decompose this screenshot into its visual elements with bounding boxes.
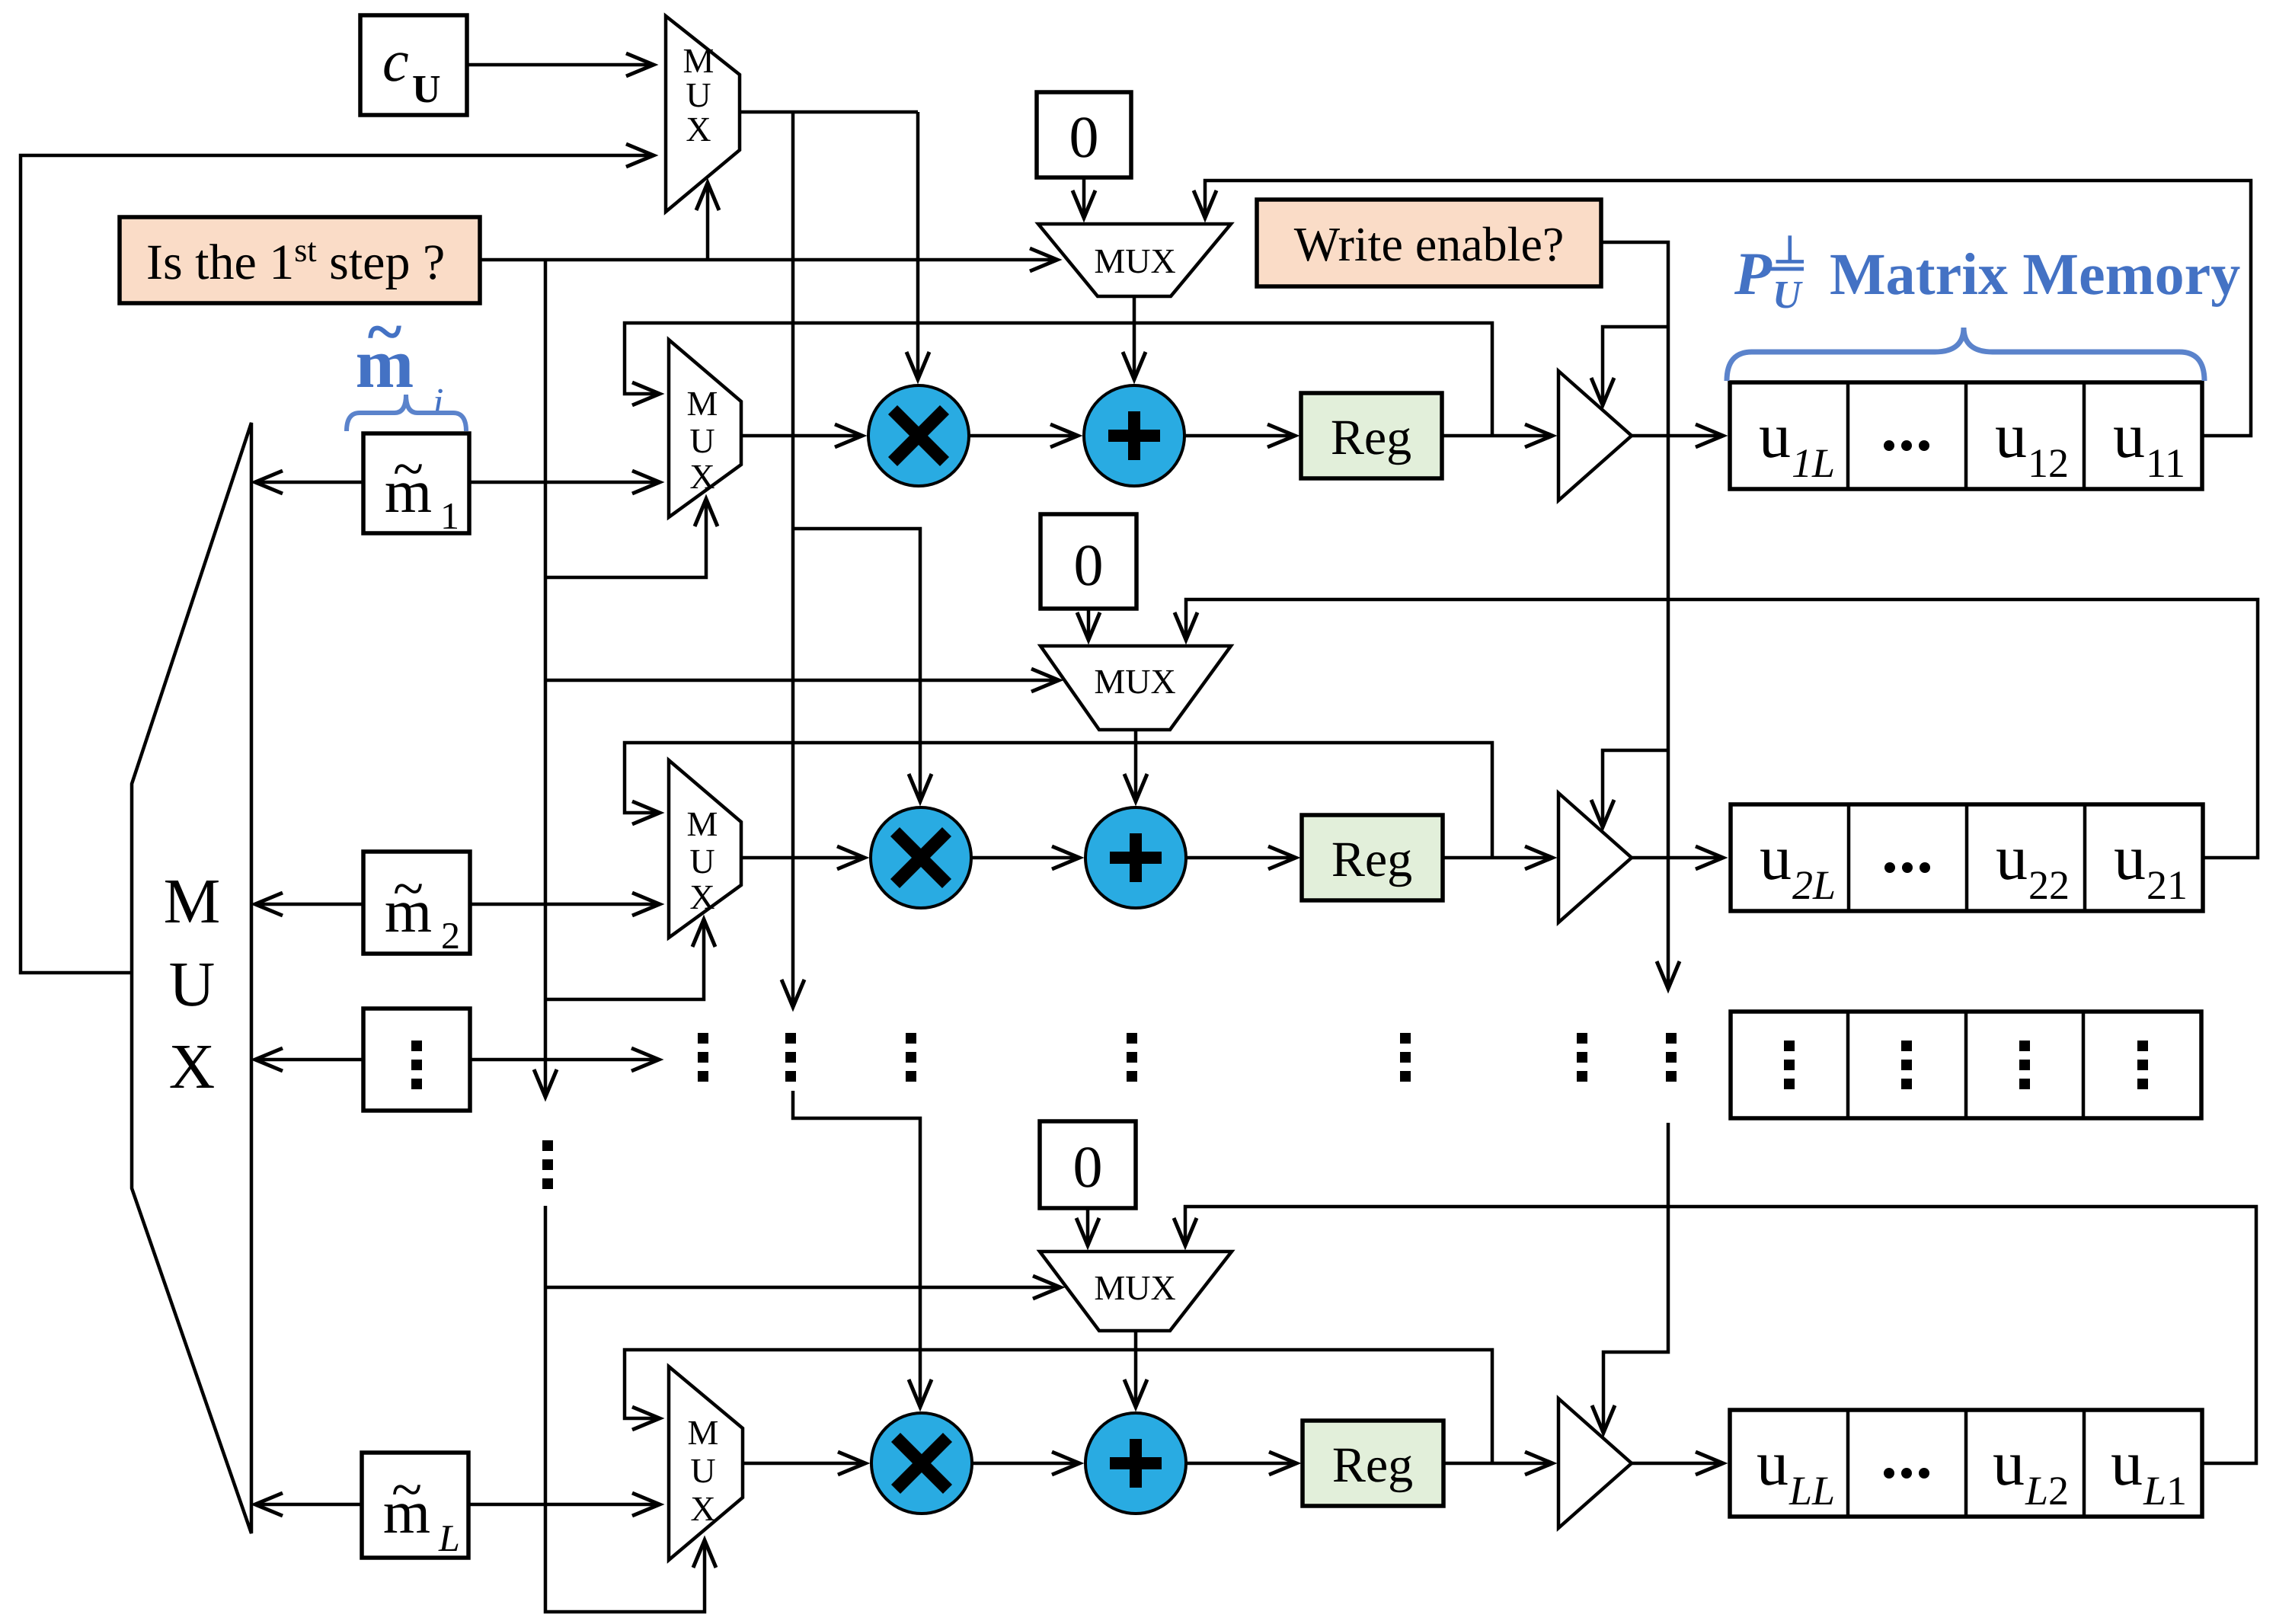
wire: mux4a output to multiplier4 [743,1462,865,1466]
svg-text:~: ~ [393,858,424,920]
svg-text:L1: L1 [2143,1468,2187,1514]
svg-text:0: 0 [1074,532,1104,598]
block mL [362,1453,468,1559]
svg-text:u: u [1993,1428,2025,1499]
svg-text:2L: 2L [1792,862,1836,908]
svg-text:u: u [2111,1428,2143,1499]
block zero2 [1041,514,1136,609]
multiplier M2 [871,807,971,908]
svg-text:X: X [169,1031,216,1102]
wire: zero1 into mux1b [1082,177,1086,218]
wire: step signal to row1 MUX left input [480,258,1057,262]
svg-text:21: 21 [2147,862,2188,908]
svg-text:X: X [689,878,714,916]
svg-text:u: u [1757,1428,1789,1499]
wire: adder1 to Reg1 [1184,434,1295,438]
wire: m1 to row1 MUX lower input [469,481,660,484]
wire: mux1b output into adder1 [1133,296,1136,379]
svg-text:U: U [689,842,714,881]
svg-text:U: U [412,68,441,111]
mux 1b (row1 accumulator MUX) [1038,224,1231,296]
adder A1 [1084,385,1184,486]
svg-text:Reg: Reg [1331,410,1411,465]
svg-text:U: U [1773,273,1803,317]
wire: m1 to left MUX [255,481,363,484]
svg-text:M: M [687,804,718,843]
wire: jog x1041 to x1208 into row2 multiplier [793,529,920,801]
register Reg2 [1302,815,1443,900]
wire: buffer1 to memory row1 [1632,434,1723,438]
wire: row2 MUX left input [545,679,1059,683]
svg-text:U: U [169,949,216,1020]
node: continuation dots on x716 [542,1140,553,1189]
svg-text:L: L [438,1517,460,1559]
svg-text:LL: LL [1789,1468,1835,1514]
svg-text:1L: 1L [1792,440,1835,486]
multiplier M1 [868,385,969,486]
svg-text:X: X [686,110,711,149]
mux 2a (row2 input MUX) [669,760,741,938]
svg-text:MUX: MUX [1094,662,1175,701]
wire: mux2b output into adder2 [1134,730,1138,801]
svg-text:M: M [164,866,221,937]
mux U-left (large left-side MUX) [132,423,251,1533]
memory row2 (u21..u2L) [1731,804,2203,911]
svg-text:1: 1 [440,494,459,537]
wire: column x1205 into row1 multiplier [916,112,920,379]
svg-text:Reg: Reg [1331,832,1412,887]
svg-text:M: M [687,384,718,423]
wire: Reg1 to buffer1 [1442,434,1552,438]
block step (Is the 1st step ?) [120,217,480,303]
svg-text:L2: L2 [2025,1468,2069,1514]
mux 4a (row L input MUX) [669,1367,743,1560]
wire: row1 select branch [545,499,706,577]
block m-dots [363,1009,470,1111]
svg-text:⊥: ⊥ [1773,229,1807,271]
wire: mux4b output into adder4 [1134,1331,1138,1407]
wire: adder4 to Reg4 [1186,1462,1296,1466]
block m1 [363,433,469,537]
brace for matrix memory [1727,328,2204,381]
svg-text:Matrix Memory: Matrix Memory [1830,241,2240,307]
wire: row1 feedback loop Reg to MUX upper input [625,323,1492,436]
wire: multiplier2 to adder2 [971,856,1079,860]
svg-text:2: 2 [441,914,460,957]
memory row1 (u11..u1L) [1730,382,2202,489]
svg-text:U: U [689,421,714,460]
wire: write-enable branch into buffer2 [1603,750,1668,827]
label P-perp-U Matrix Memory (blue) [1734,229,2240,317]
wire: cU to top MUX upper input [467,63,654,67]
wire: top MUX output to column x1205 [740,110,918,114]
wire: Reg2 to buffer2 [1443,856,1552,860]
wire: m-dots to left MUX [255,1058,363,1062]
wire: write-enable branch into buffer1 [1603,327,1668,405]
wire: x1041 lower stub jog to x1208 into row4 multiplier [793,1091,920,1407]
svg-text:11: 11 [2146,440,2185,486]
wire: m2 to row2 MUX lower input [470,903,660,906]
svg-text:u: u [2113,401,2145,472]
multiplier M4 [871,1413,972,1514]
memory rowL (uL1..uLL) [1730,1410,2202,1517]
wire: write-enable distribution vertical x2190 [1601,242,1668,989]
wire: buffer2 to memory row2 [1632,856,1723,860]
svg-text:MUX: MUX [1094,241,1175,280]
wire: zero2 into mux2b [1087,609,1091,640]
svg-text:~: ~ [392,1459,422,1521]
svg-text:X: X [690,1489,715,1528]
wire: multiplier1 to adder1 [969,434,1078,438]
svg-text:u: u [1996,823,2028,894]
svg-text:U: U [686,75,711,114]
label m-tilde-i (blue) [356,295,444,424]
svg-text:u: u [2114,823,2146,894]
memory row3 (dots) [1731,1012,2201,1118]
svg-text:0: 0 [1073,1133,1103,1200]
mux 4b (rowL accumulator MUX) [1040,1252,1232,1331]
block zero4 [1040,1121,1136,1208]
wire: m2 to left MUX [255,903,363,906]
adder A2 [1085,807,1186,908]
svg-text:i: i [433,381,443,424]
mux 2b (row2 accumulator MUX) [1041,646,1231,730]
mux U-top (input select MUX) [666,16,740,212]
svg-text:M: M [683,41,714,80]
mux 1a (row1 input MUX) [669,340,741,517]
wire: row2 select branch [545,919,704,999]
wire: mL to row4 MUX lower input [468,1503,660,1507]
svg-text:u: u [1759,401,1791,472]
wire: write-enable branch into buffer4 [1603,1123,1668,1433]
wire: memory row2 feedback to mux2b right input [1186,599,2258,858]
block m2 [363,852,470,957]
svg-text:P: P [1734,241,1773,308]
wire: column x1041 from top MUX output down [791,112,795,1007]
svg-text:22: 22 [2028,862,2070,908]
svg-text:u: u [1995,401,2027,472]
svg-text:~: ~ [368,295,402,368]
node: dots row markers [698,1033,1677,1082]
svg-text:c: c [382,27,409,94]
wire: adder2 to Reg2 [1186,856,1296,860]
svg-text:U: U [690,1451,715,1490]
register Reg4 [1303,1421,1443,1506]
wire: mL to left MUX [255,1503,362,1507]
wire: step select up into top MUX [706,183,710,260]
svg-text:X: X [689,457,714,496]
adder A4 [1085,1413,1186,1514]
svg-text:12: 12 [2028,440,2069,486]
wire: multiplier4 to adder4 [972,1462,1079,1466]
svg-text:0: 0 [1069,104,1099,170]
buffer T2 (tri-state) [1558,793,1632,922]
block zero1 [1037,92,1131,177]
wire: row4 MUX left input [545,1286,1060,1290]
svg-text:Write enable?: Write enable? [1294,217,1565,271]
svg-text:Reg: Reg [1332,1437,1413,1493]
wire: left MUX output loop to top MUX lower input [21,155,654,973]
wire: m-dots row stub right [470,1058,659,1062]
buffer T4 (tri-state) [1558,1399,1632,1528]
svg-text:u: u [1760,823,1792,894]
brace for m-tilde-i [347,395,466,431]
svg-text:~: ~ [393,438,424,500]
wire: memory rowL feedback to mux4b right input [1185,1207,2256,1463]
svg-text:M: M [688,1413,719,1452]
wire: buffer4 to memory row4 [1632,1462,1723,1466]
block write-enable [1257,200,1601,286]
wire: x716 lower segment to row4 select [545,1206,705,1612]
register Reg1 [1301,393,1442,478]
buffer T1 (tri-state) [1558,371,1632,500]
svg-text:MUX: MUX [1094,1268,1175,1307]
wire: zero4 into mux4b [1086,1208,1090,1245]
wire: mux1a output to multiplier1 [741,434,862,438]
wire: step select vertical distribution x716 upper segment [544,260,548,1097]
wire: memory row1 feedback to mux1b right input [1205,181,2251,436]
block cU [360,15,467,115]
wire: row2 feedback loop Reg to MUX upper input [625,743,1492,858]
wire: mux2a output to multiplier2 [741,856,865,860]
wire: Reg4 to buffer4 [1443,1462,1552,1466]
wire: rowL feedback loop Reg to MUX upper input [625,1350,1492,1463]
